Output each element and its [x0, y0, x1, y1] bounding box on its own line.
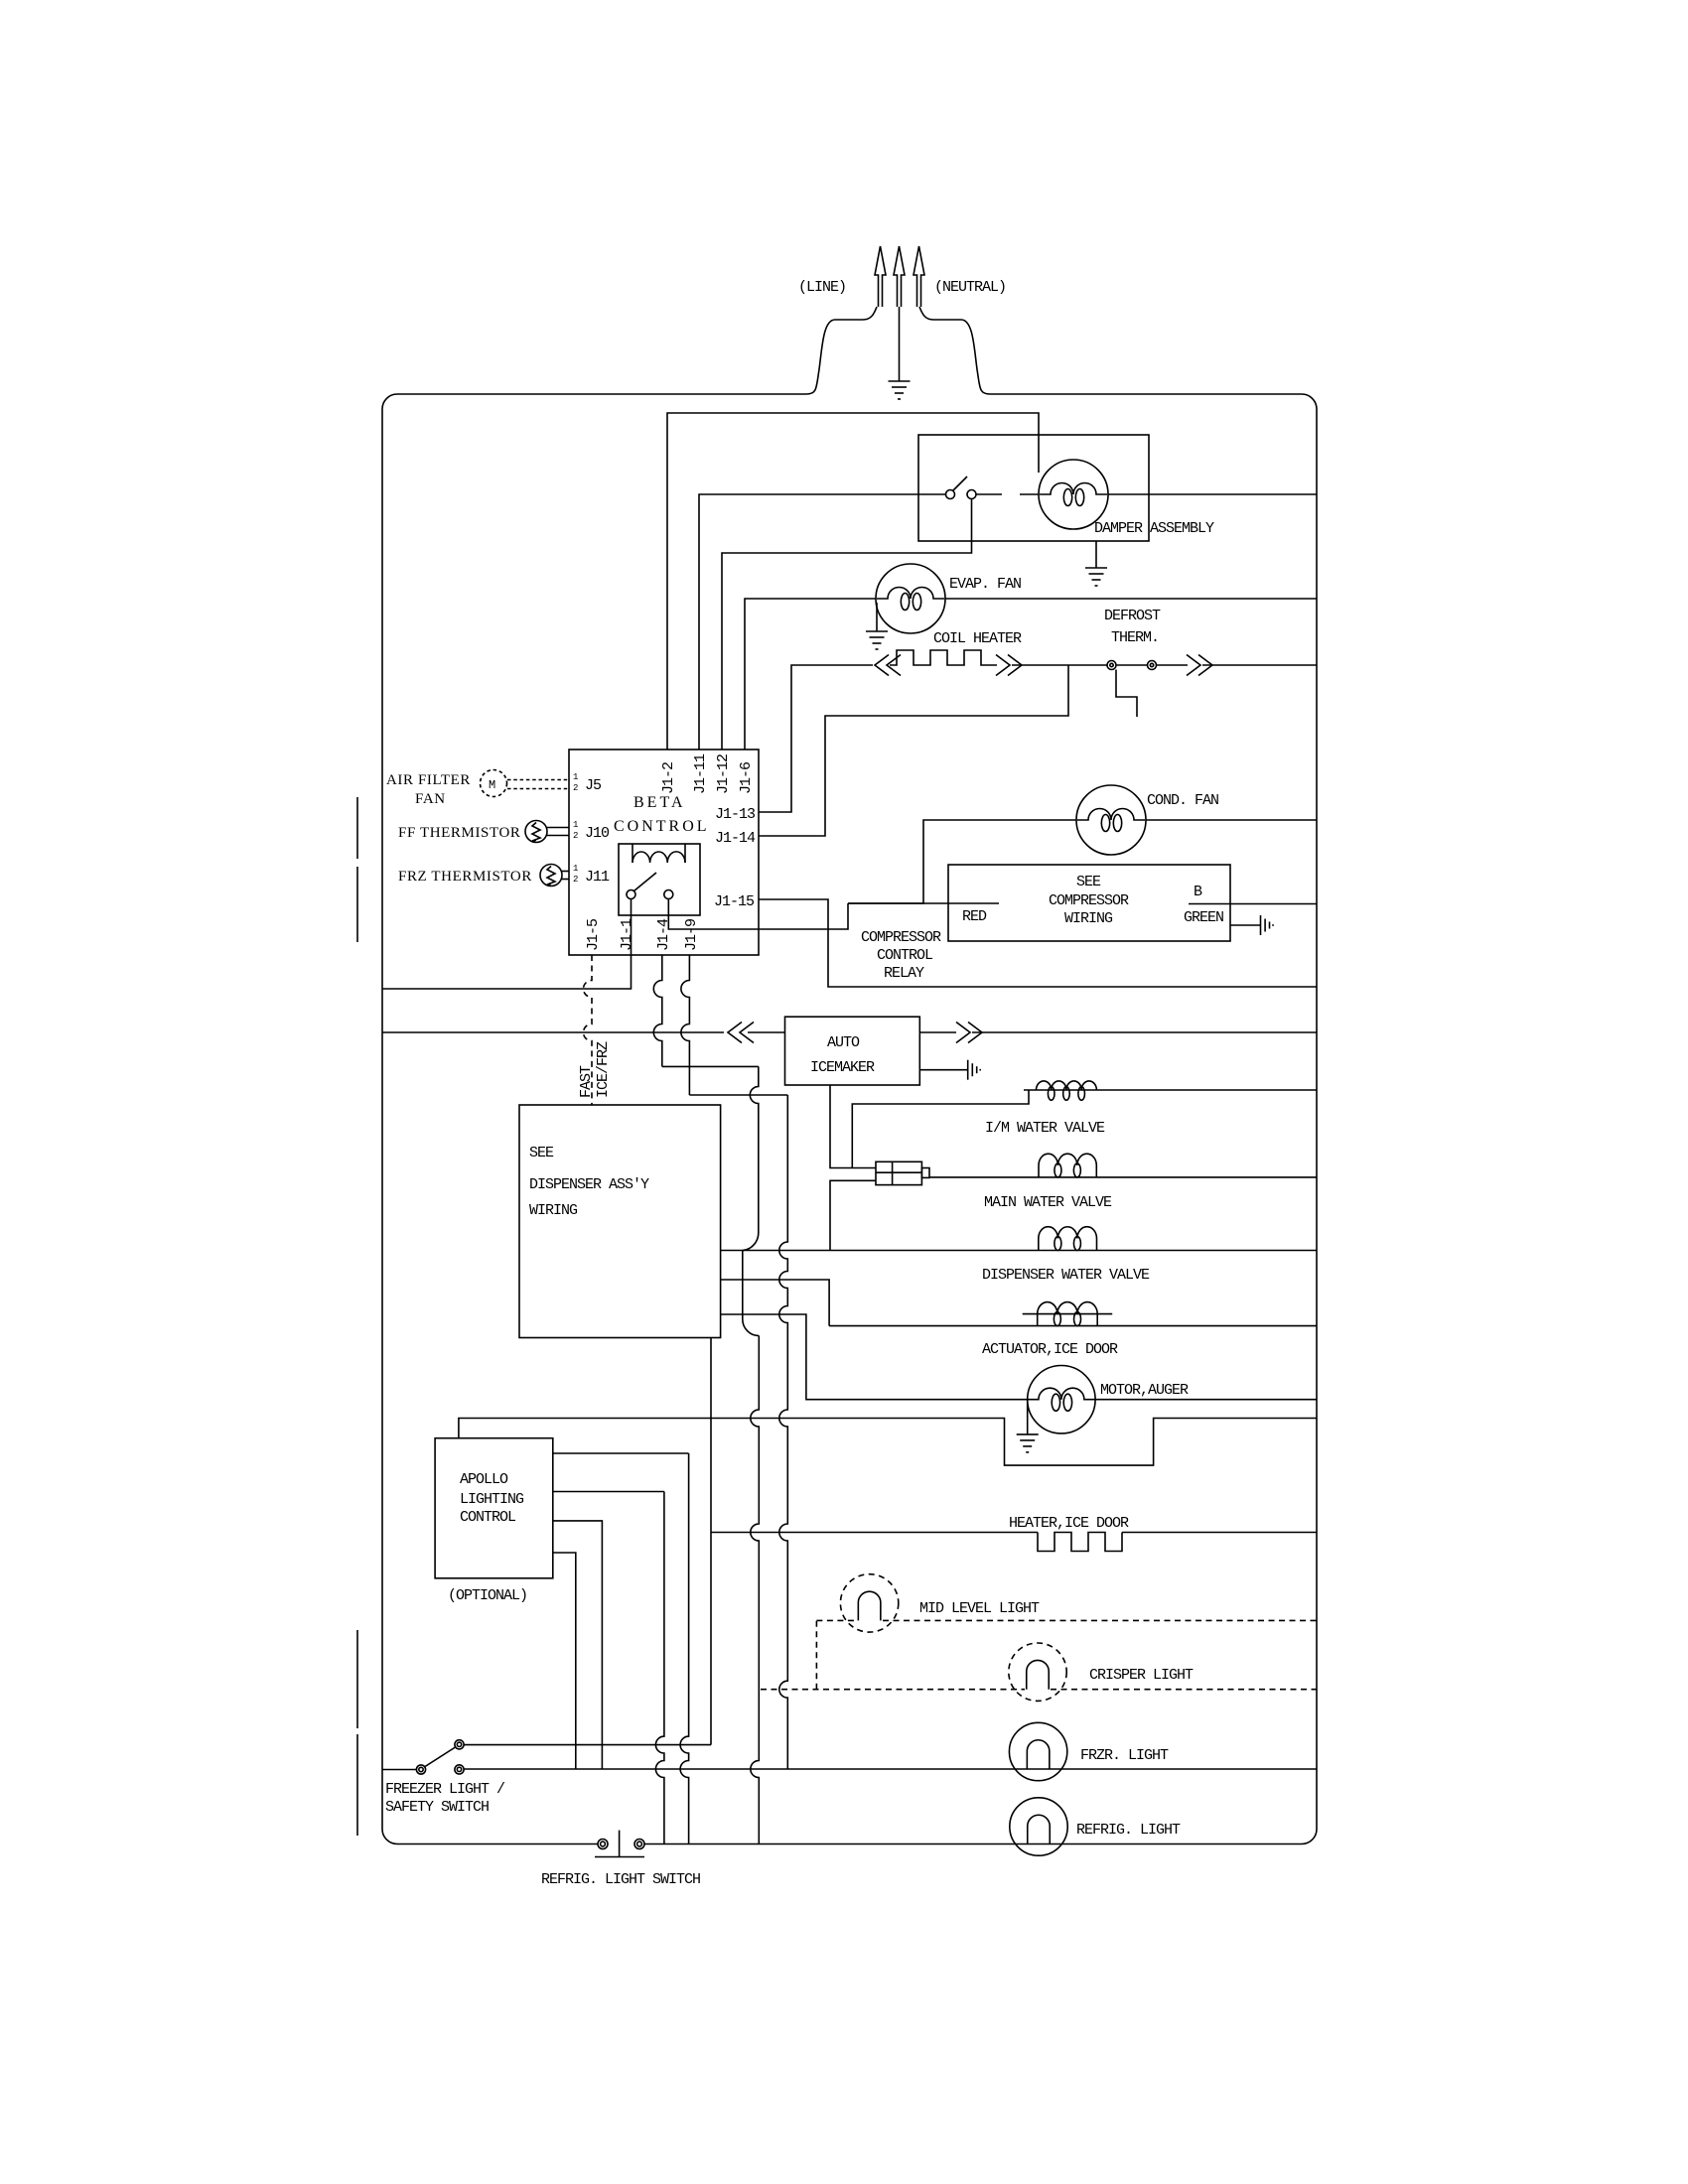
wire - cond fan right lead to right bus — [1146, 819, 1317, 821]
wire - J1-9 drop — [681, 955, 690, 1095]
svg-text:CONTROL: CONTROL — [614, 818, 710, 835]
wire - mid level light dashed feed — [815, 1620, 817, 1689]
ground - auger motor ground — [1017, 1433, 1039, 1435]
wire - dispenser feed 3 to auger motor — [721, 1314, 1028, 1400]
thermistor - FF thermistor — [525, 821, 547, 843]
svg-text:J1-9: J1-9 — [683, 919, 700, 951]
defrost thermostat terminals — [1107, 661, 1116, 670]
wire - RED stub inside compressor box — [848, 902, 999, 904]
svg-text:HEATER,ICE DOOR: HEATER,ICE DOOR — [1009, 1515, 1129, 1532]
wire - apollo output 1 to bottom bus — [553, 1452, 689, 1454]
svg-text:RELAY: RELAY — [884, 965, 924, 982]
svg-text:LIGHTING: LIGHTING — [460, 1491, 524, 1508]
svg-text:APOLLO: APOLLO — [460, 1471, 508, 1488]
svg-text:J1-5: J1-5 — [585, 918, 602, 951]
wire - damper ground lead — [1095, 541, 1097, 568]
wire - auger motor ground lead — [1027, 1400, 1029, 1434]
damper assembly box — [918, 435, 1149, 541]
ground - plug earth ground — [889, 380, 911, 382]
svg-text:EVAP. FAN: EVAP. FAN — [949, 576, 1021, 593]
svg-text:J1-1: J1-1 — [619, 918, 635, 951]
svg-text:GREEN: GREEN — [1184, 909, 1223, 926]
svg-text:THERM.: THERM. — [1111, 629, 1159, 646]
wire - actuator ice door line — [829, 1325, 1317, 1327]
connector << at coil heater — [875, 655, 889, 676]
svg-text:COMPRESSOR: COMPRESSOR — [1049, 892, 1129, 909]
svg-text:B: B — [1194, 884, 1202, 900]
svg-text:FF THERMISTOR: FF THERMISTOR — [398, 825, 521, 841]
wire - relay contact to compressor relay coil line — [668, 899, 848, 930]
svg-text:FAN: FAN — [415, 791, 446, 807]
svg-text:J5: J5 — [585, 777, 602, 794]
wire - bus2 LINE feed to auto icemaker — [382, 1031, 724, 1033]
wire - J1-12 riser to damper switch common — [722, 499, 972, 751]
wire - J1-2 riser and inner top bus to damper coil — [667, 413, 1039, 750]
wire - dispenser feed 2 to actuator — [721, 1280, 830, 1326]
wire - FRZ thermistor leads — [562, 871, 569, 873]
wire - GREEN lead to right bus — [1189, 903, 1317, 905]
wire - auger motor to right bus — [1095, 1399, 1317, 1401]
motor - air filter fan (dashed circle M) — [481, 770, 507, 797]
wire - heater ice door feed from dispenser drop — [711, 1532, 1038, 1534]
resistor - coil heater element — [890, 650, 997, 665]
svg-text:CRISPER LIGHT: CRISPER LIGHT — [1089, 1667, 1194, 1684]
svg-text:M: M — [489, 778, 495, 792]
plug prong NEUTRAL — [914, 246, 924, 307]
connector << before auto icemaker — [728, 1023, 742, 1043]
wire - plug bump right curve (NEUTRAL side) — [919, 307, 990, 394]
inductor - I/M water valve coil on line — [1024, 1089, 1317, 1091]
inductor - main water valve coil — [1039, 1154, 1096, 1177]
motor - condenser fan — [1076, 785, 1146, 855]
svg-text:RED: RED — [962, 908, 987, 925]
wire - evap fan to right bus — [945, 598, 1317, 600]
wire - FF thermistor leads — [547, 827, 569, 829]
ground - damper assembly ground — [1085, 567, 1107, 569]
svg-text:MID LEVEL LIGHT: MID LEVEL LIGHT — [919, 1600, 1040, 1617]
svg-text:MAIN WATER VALVE: MAIN WATER VALVE — [984, 1194, 1112, 1211]
control board - BETA CONTROL box — [569, 750, 759, 955]
svg-text:DISPENSER WATER VALVE: DISPENSER WATER VALVE — [982, 1267, 1150, 1284]
motor - damper coil — [1039, 460, 1108, 529]
svg-text:2: 2 — [573, 783, 578, 793]
svg-text:FRZ THERMISTOR: FRZ THERMISTOR — [398, 869, 532, 885]
svg-text:J1-2: J1-2 — [660, 762, 677, 794]
wire - heater to right bus — [1122, 1532, 1317, 1534]
svg-text:J11: J11 — [585, 869, 610, 886]
compressor wiring box — [948, 865, 1230, 941]
svg-text:SAFETY SWITCH: SAFETY SWITCH — [385, 1799, 489, 1816]
svg-text:I/M WATER VALVE: I/M WATER VALVE — [985, 1120, 1105, 1137]
water inlet valve device (dual solenoid body) — [876, 1161, 921, 1184]
relay coil — [632, 844, 633, 863]
wire - defrost to right bus — [1202, 664, 1317, 666]
wire - plug bump left curve (LINE side) — [806, 307, 877, 394]
svg-text:1: 1 — [573, 864, 578, 874]
wire - bus1 LINE feed to relay contact J1-1 — [382, 899, 632, 990]
switch - freezer light / safety switch — [416, 1765, 425, 1774]
motor - evaporator fan — [876, 564, 945, 633]
wire - freezer light line — [464, 1768, 1317, 1770]
wire - damper coil to right bus — [1108, 493, 1317, 495]
wire - evap fan ground lead — [876, 603, 878, 631]
plug prong LINE — [875, 246, 886, 307]
svg-text:J1-13: J1-13 — [715, 806, 756, 823]
switch - refrig light switch actuator — [619, 1831, 621, 1857]
svg-text:J1-6: J1-6 — [738, 761, 755, 794]
control board - SEE DISPENSER ASS'Y WIRING box — [519, 1105, 721, 1338]
svg-text:AUTO: AUTO — [827, 1034, 860, 1051]
wire - ground prong lead — [899, 307, 901, 381]
svg-text:J1-11: J1-11 — [692, 753, 709, 794]
control board - APOLLO LIGHTING CONTROL box — [435, 1438, 553, 1578]
wire - icemaker ground stub — [919, 1069, 967, 1071]
wire - neutral vertical to bottom bus — [751, 1336, 760, 1844]
svg-text:ICE/FRZ: ICE/FRZ — [595, 1041, 612, 1098]
plug prong ground (middle) — [894, 246, 905, 307]
lamp - refrigerator light on bottom bus — [1010, 1798, 1067, 1855]
wire - device lower terminal to dispenser valve line — [830, 1180, 876, 1250]
wire - I/M valve return jog to device — [852, 1090, 1029, 1168]
wire - apollo output 2 to bottom bus — [553, 1491, 664, 1493]
wire - air filter fan dashed leads — [507, 779, 569, 781]
wire - crisper light dashed line — [761, 1689, 1025, 1691]
svg-text:MOTOR,AUGER: MOTOR,AUGER — [1100, 1382, 1189, 1399]
wire - dispenser feed 1 / dispenser water valve line — [721, 1250, 1317, 1252]
svg-text:(LINE): (LINE) — [798, 279, 846, 296]
wire - outer enclosure left edge and bottom-left bus to refrig light switch — [382, 394, 806, 1844]
wire - J1-11 riser to damper switch — [699, 494, 946, 750]
wire - J1-13 to coil heater — [759, 665, 873, 812]
svg-text:1: 1 — [573, 772, 578, 782]
wire - J1-9 long vertical to freezer light line — [779, 1095, 787, 1769]
ground - icemaker chassis ground — [967, 1060, 969, 1080]
wire - defrost thermostat sensing stair — [1116, 670, 1137, 718]
motor - auger motor — [1028, 1366, 1095, 1433]
wire - J1-15 pin to right — [759, 899, 1317, 987]
connector >> after coil heater — [996, 655, 1010, 676]
wire - apollo output 3 to freezer light line — [553, 1521, 603, 1769]
wire - cond fan left lead down to compressor RED — [848, 820, 1076, 903]
wire - dispenser box neutral drop from bottom edge — [710, 1338, 712, 1745]
switch - damper switch — [946, 490, 955, 499]
wire - heater tap down to J1-14 — [759, 665, 1068, 836]
svg-text:COND. FAN: COND. FAN — [1147, 792, 1218, 809]
svg-text:REFRIG. LIGHT: REFRIG. LIGHT — [1076, 1822, 1181, 1839]
switch - refrig light switch terminals on bottom bus — [598, 1840, 608, 1849]
lamp - freezer light — [1009, 1722, 1066, 1780]
svg-text:CONTROL: CONTROL — [877, 947, 933, 964]
connector >> after auto icemaker — [919, 1031, 956, 1033]
wire - freezer switch upper contact to dispenser drop — [465, 1744, 712, 1746]
wire - line feed to freezer switch — [382, 1769, 416, 1771]
wire - damper switch to coil (broken segment) — [976, 493, 1002, 495]
wire - icemaker pin to water valve device — [830, 1085, 876, 1168]
connector >> after defrost thermostat — [1187, 655, 1200, 676]
svg-text:(NEUTRAL): (NEUTRAL) — [934, 279, 1006, 296]
wire - icemaker to right bus — [972, 1031, 1317, 1033]
svg-text:COMPRESSOR: COMPRESSOR — [861, 929, 941, 946]
svg-text:FAST: FAST — [578, 1065, 595, 1098]
relay - compressor control relay box inside beta control — [619, 844, 700, 915]
wire - outer enclosure bottom-right bus and right edge — [644, 394, 1317, 1844]
svg-text:J1-12: J1-12 — [715, 754, 732, 794]
wire - compressor ground stub — [1230, 924, 1260, 926]
wire - heater output to defrost thermostat — [1012, 664, 1107, 666]
svg-text:DISPENSER ASS'Y: DISPENSER ASS'Y — [529, 1176, 649, 1193]
svg-text:J1-15: J1-15 — [714, 893, 755, 910]
svg-text:WIRING: WIRING — [1064, 910, 1113, 927]
wire - J1-4 drop — [653, 955, 662, 1066]
svg-text:FREEZER LIGHT /: FREEZER LIGHT / — [385, 1781, 505, 1798]
svg-text:ICEMAKER: ICEMAKER — [810, 1059, 875, 1076]
svg-text:WIRING: WIRING — [529, 1202, 578, 1219]
svg-text:(OPTIONAL): (OPTIONAL) — [448, 1587, 527, 1604]
wire - defrost out segment — [1157, 664, 1189, 666]
svg-text:J1-4: J1-4 — [655, 918, 672, 951]
svg-text:2: 2 — [573, 875, 578, 885]
wire - J1-5 dashed drop to dispenser box — [584, 955, 593, 1105]
svg-text:J1-14: J1-14 — [715, 830, 756, 847]
svg-text:AIR FILTER: AIR FILTER — [386, 772, 471, 788]
relay switch contacts — [627, 890, 635, 899]
wire - registration tick marks left margin (bottom) — [356, 1630, 358, 1728]
svg-text:ACTUATOR,ICE DOOR: ACTUATOR,ICE DOOR — [982, 1341, 1118, 1358]
svg-text:J10: J10 — [585, 825, 610, 842]
wire - J1-6 riser to evap fan — [745, 599, 876, 750]
svg-text:1: 1 — [573, 820, 578, 830]
ground - compressor chassis ground — [1260, 915, 1262, 935]
wire - apollo output 4 to freezer light line — [553, 1553, 576, 1769]
auto icemaker box — [785, 1017, 920, 1085]
svg-text:SEE: SEE — [529, 1145, 554, 1161]
resistor - heater ice door element — [1038, 1533, 1122, 1552]
wire - device to main water valve — [929, 1176, 1317, 1178]
inductor - actuator ice door coil — [1038, 1302, 1098, 1326]
svg-text:DEFROST: DEFROST — [1104, 608, 1161, 624]
svg-text:CONTROL: CONTROL — [460, 1509, 516, 1526]
inductor - dispenser water valve coil — [1039, 1227, 1097, 1251]
registration tick marks left margin (top) — [356, 797, 358, 859]
svg-text:BETA: BETA — [633, 794, 686, 811]
wire - neutral drop at dispenser valve feed — [742, 1251, 744, 1320]
svg-text:2: 2 — [573, 831, 578, 841]
svg-text:REFRIG. LIGHT SWITCH: REFRIG. LIGHT SWITCH — [541, 1871, 700, 1888]
wire - J1-4 vertical to dispenser valve feed — [750, 1066, 758, 1232]
lamp - mid level light (dashed circle) — [840, 1574, 898, 1632]
svg-text:FRZR. LIGHT: FRZR. LIGHT — [1080, 1747, 1169, 1764]
svg-text:COIL HEATER: COIL HEATER — [933, 630, 1022, 647]
svg-text:SEE: SEE — [1076, 874, 1101, 890]
wire - apollo neutral line with detour under auger motor — [459, 1419, 1317, 1466]
ground - evap fan ground — [866, 630, 888, 632]
lamp - crisper light (dashed circle) — [1009, 1643, 1066, 1701]
svg-text:DAMPER ASSEMBLY: DAMPER ASSEMBLY — [1094, 520, 1214, 537]
thermistor - FRZ thermistor — [540, 865, 562, 887]
